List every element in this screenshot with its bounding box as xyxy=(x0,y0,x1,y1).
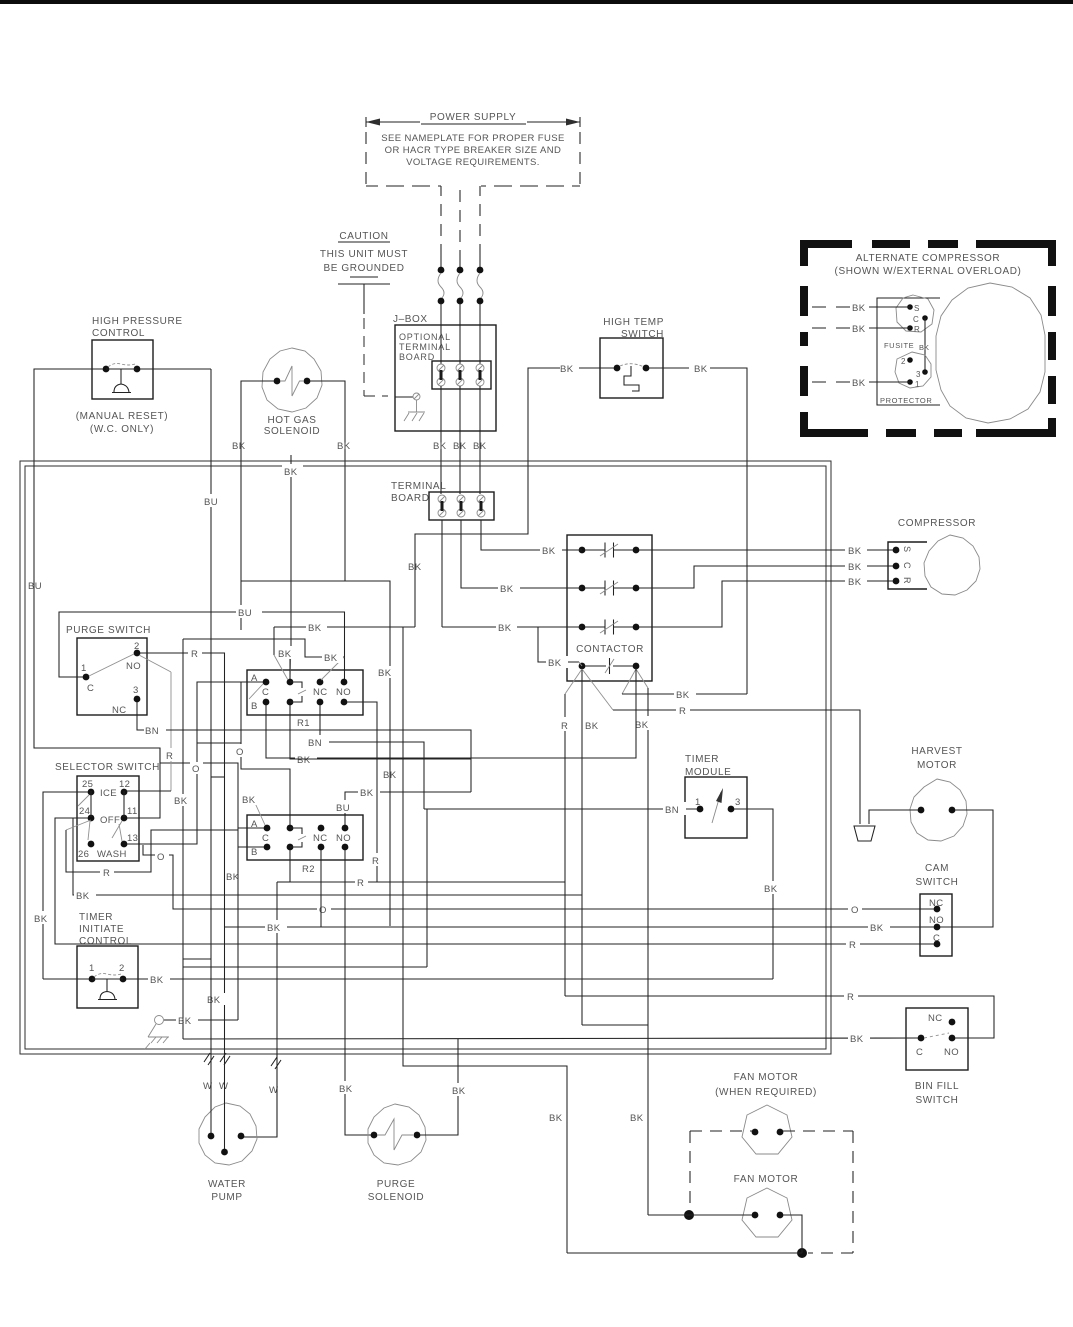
svg-text:11: 11 xyxy=(127,806,138,817)
wire high temp left to terminal board circuit xyxy=(578,367,614,369)
svg-text:BK: BK xyxy=(178,1016,192,1027)
inner terminal box xyxy=(877,298,940,405)
purge 2 thin R wire xyxy=(139,655,171,672)
svg-text:SOLENOID: SOLENOID xyxy=(368,1192,424,1203)
svg-text:R1: R1 xyxy=(297,718,310,729)
wire L1 dashed xyxy=(440,186,442,252)
svg-text:NO: NO xyxy=(126,661,141,672)
R1 coil top BK wire xyxy=(290,455,292,647)
svg-text:BK: BK xyxy=(360,788,374,799)
svg-text:BU: BU xyxy=(336,803,350,814)
svg-text:BU: BU xyxy=(204,497,218,508)
svg-text:C: C xyxy=(87,683,94,694)
svg-text:NO: NO xyxy=(336,687,351,698)
svg-text:3: 3 xyxy=(916,370,921,379)
R1 NC bottom BN wire xyxy=(320,705,424,809)
svg-text:CONTROL: CONTROL xyxy=(92,328,145,339)
svg-text:THIS UNIT MUST: THIS UNIT MUST xyxy=(320,249,408,260)
contactor xyxy=(567,535,652,681)
svg-text:BK: BK xyxy=(852,324,866,335)
svg-text:BK: BK xyxy=(548,658,562,669)
selector switch arms xyxy=(90,791,92,817)
svg-text:R: R xyxy=(166,751,173,762)
page border top bar xyxy=(0,0,1073,4)
wire HPC left to BU column xyxy=(34,369,264,828)
contact 3 xyxy=(579,624,586,631)
harvest left wire to terminal xyxy=(869,810,918,824)
svg-text:BK: BK xyxy=(297,755,311,766)
svg-text:TIMER: TIMER xyxy=(685,754,719,765)
contact 2 xyxy=(579,585,586,592)
svg-text:BOARD: BOARD xyxy=(399,352,435,362)
svg-text:2: 2 xyxy=(901,357,906,366)
fuse F3 xyxy=(479,252,481,268)
svg-text:R: R xyxy=(103,868,110,879)
hot gas wires join xyxy=(241,580,390,582)
pin3 wire down xyxy=(734,809,773,979)
timer module arrow head xyxy=(716,788,723,803)
svg-text:O: O xyxy=(192,764,200,775)
selector 25 wire xyxy=(43,792,88,979)
svg-text:R: R xyxy=(191,649,198,660)
purge C wire to BU xyxy=(59,612,345,682)
svg-text:BK: BK xyxy=(226,872,240,883)
svg-text:S: S xyxy=(902,546,912,552)
power supply box xyxy=(366,121,580,123)
svg-text:ICE: ICE xyxy=(100,788,117,799)
svg-text:BK: BK xyxy=(308,623,322,634)
TIC pin2 wire to timer module xyxy=(126,978,773,980)
svg-text:FAN MOTOR: FAN MOTOR xyxy=(734,1174,799,1185)
fuse F1 xyxy=(440,252,442,268)
R1 NO bottom R wire xyxy=(347,702,377,882)
R2 NC bottom wire xyxy=(320,850,322,927)
svg-text:BN: BN xyxy=(308,738,322,749)
selector 26 wire R xyxy=(66,820,91,830)
svg-text:BK: BK xyxy=(267,923,281,934)
wire BN branch down xyxy=(183,639,211,959)
water pump xyxy=(199,1103,257,1165)
svg-text:BK: BK xyxy=(852,378,866,389)
svg-text:3: 3 xyxy=(735,797,741,808)
relay R1 coil symbol xyxy=(290,682,302,702)
svg-text:PURGE: PURGE xyxy=(377,1179,416,1190)
selector 24 wire xyxy=(55,818,937,944)
wire hot gas right xyxy=(310,381,390,926)
svg-text:NC: NC xyxy=(928,1013,943,1024)
TIC pin1 wire xyxy=(43,978,89,980)
R1 NC top BK feed xyxy=(183,639,344,657)
svg-text:BK: BK xyxy=(498,623,512,634)
svg-text:BK: BK xyxy=(694,364,708,375)
svg-text:BK: BK xyxy=(433,441,447,452)
svg-text:J–BOX: J–BOX xyxy=(393,314,428,325)
svg-text:FAN MOTOR: FAN MOTOR xyxy=(734,1072,799,1083)
dashed BK wire to S xyxy=(812,306,910,308)
svg-text:VOLTAGE REQUIREMENTS.: VOLTAGE REQUIREMENTS. xyxy=(406,157,540,168)
svg-text:O: O xyxy=(851,905,859,916)
fusite xyxy=(896,295,934,332)
svg-text:BOARD: BOARD xyxy=(391,493,430,504)
svg-text:C: C xyxy=(916,1047,923,1058)
R2 coil bottom R wire xyxy=(290,850,565,882)
relay R2 xyxy=(247,815,363,860)
svg-text:TERMINAL: TERMINAL xyxy=(391,481,446,492)
contactor to compressor wires xyxy=(639,549,893,551)
protector xyxy=(895,352,931,388)
svg-text:BK: BK xyxy=(337,441,351,452)
power supply box bottom dashed edge xyxy=(366,185,580,187)
svg-text:BK: BK xyxy=(150,975,164,986)
svg-text:BK: BK xyxy=(278,649,292,660)
svg-text:TIMER: TIMER xyxy=(79,912,113,923)
svg-text:HOT GAS: HOT GAS xyxy=(267,415,316,426)
purge 3 BN wire xyxy=(137,702,471,792)
wire high temp right down to contactor coil xyxy=(649,367,689,369)
terminal board jumper bars xyxy=(441,501,483,511)
svg-text:BK: BK xyxy=(174,796,188,807)
svg-text:POWER SUPPLY: POWER SUPPLY xyxy=(430,112,516,123)
terminal board middle to contactor row2 xyxy=(461,520,582,588)
svg-text:BK: BK xyxy=(324,653,338,664)
svg-text:SEE NAMEPLATE FOR PROPER FUSE: SEE NAMEPLATE FOR PROPER FUSE xyxy=(381,133,565,144)
svg-text:3: 3 xyxy=(133,685,139,696)
svg-text:BK: BK xyxy=(852,303,866,314)
svg-text:R: R xyxy=(561,721,568,732)
svg-text:R: R xyxy=(914,325,920,334)
chassis ground xyxy=(338,277,390,314)
R1 coil top second feed from terminal board left xyxy=(274,626,582,628)
svg-text:W: W xyxy=(219,1081,228,1092)
svg-text:BU: BU xyxy=(28,581,42,592)
selector 12 wire xyxy=(127,790,171,792)
svg-text:BK: BK xyxy=(848,562,862,573)
svg-text:OPTIONAL: OPTIONAL xyxy=(399,332,451,342)
svg-text:HIGH PRESSURE: HIGH PRESSURE xyxy=(92,316,183,327)
relay R1 xyxy=(247,670,363,715)
svg-text:26: 26 xyxy=(78,849,89,860)
svg-text:C: C xyxy=(902,562,912,569)
purge solenoid xyxy=(368,1104,426,1165)
optional terminal board block xyxy=(432,361,491,389)
strain relief marks xyxy=(204,1053,281,1069)
svg-text:S: S xyxy=(914,304,919,313)
wire contactor coil right to R1 B xyxy=(567,669,636,758)
x=648 wire from contactor to fan2 xyxy=(648,1214,689,1216)
svg-text:PURGE SWITCH: PURGE SWITCH xyxy=(66,625,151,636)
svg-text:HARVEST: HARVEST xyxy=(911,746,962,757)
svg-text:BK: BK xyxy=(408,562,422,573)
svg-text:HIGH TEMP: HIGH TEMP xyxy=(603,317,664,328)
svg-text:A: A xyxy=(251,819,258,830)
svg-text:B: B xyxy=(251,701,258,712)
wire HPC right down BU xyxy=(140,368,211,370)
BK line y=927 xyxy=(225,926,934,928)
BU branch from HPC right xyxy=(210,369,212,1050)
wires inside J-box down to terminal board xyxy=(441,386,480,431)
main enclosure double border xyxy=(20,461,831,1054)
svg-text:BK: BK xyxy=(378,668,392,679)
relay R2 coil symbol xyxy=(290,828,302,847)
NO wire to R line xyxy=(565,996,994,1038)
svg-text:1: 1 xyxy=(81,663,87,674)
svg-text:O: O xyxy=(236,747,244,758)
timer initiate contact bar xyxy=(92,978,123,980)
svg-text:12: 12 xyxy=(119,779,130,790)
svg-text:INITIATE: INITIATE xyxy=(79,924,124,935)
purge switch arm xyxy=(89,654,134,676)
svg-text:BK: BK xyxy=(919,343,929,352)
svg-text:MOTOR: MOTOR xyxy=(917,760,957,771)
svg-text:BK: BK xyxy=(585,721,599,732)
svg-text:BK: BK xyxy=(242,795,256,806)
svg-text:(W.C. ONLY): (W.C. ONLY) xyxy=(90,424,154,435)
R2 B wire xyxy=(238,846,264,848)
wire L3 dashed xyxy=(479,186,481,252)
harvest right wire to cam NO xyxy=(940,810,993,927)
dashed BK wire to 1 xyxy=(812,381,910,383)
BK link C to 3 xyxy=(924,318,926,372)
terminal board right to contactor row1 xyxy=(481,520,582,550)
svg-text:C: C xyxy=(262,833,269,844)
svg-text:BK: BK xyxy=(630,1113,644,1124)
svg-text:1: 1 xyxy=(915,380,920,389)
svg-text:CAM: CAM xyxy=(925,863,949,874)
svg-text:BE GROUNDED: BE GROUNDED xyxy=(323,263,404,274)
wire terminal board left to BK line xyxy=(441,520,443,627)
svg-text:O: O xyxy=(157,852,165,863)
J-box ground xyxy=(395,396,413,398)
contact 1 xyxy=(579,547,586,554)
compressor blob xyxy=(936,283,1045,423)
svg-text:R: R xyxy=(902,577,912,584)
svg-text:COMPRESSOR: COMPRESSOR xyxy=(898,518,976,529)
svg-text:BK: BK xyxy=(383,770,397,781)
purge solenoid right wire xyxy=(420,1039,458,1135)
inner ground lug xyxy=(155,1016,164,1025)
x=403 wire to bottom xyxy=(403,627,567,1253)
svg-text:BK: BK xyxy=(34,914,48,925)
svg-text:BN: BN xyxy=(145,726,159,737)
wire L2 dashed xyxy=(459,190,461,256)
selector 11 wire xyxy=(127,748,160,818)
svg-text:BK: BK xyxy=(207,995,221,1006)
svg-text:24: 24 xyxy=(79,806,90,817)
bin fill switch xyxy=(906,1008,968,1070)
svg-text:BK: BK xyxy=(848,577,862,588)
optional terminal board jumper bars xyxy=(440,370,482,380)
svg-text:BK: BK xyxy=(339,1084,353,1095)
svg-text:BN: BN xyxy=(665,805,679,816)
svg-text:R: R xyxy=(847,992,854,1003)
svg-text:R: R xyxy=(679,706,686,717)
svg-text:NO: NO xyxy=(336,833,351,844)
svg-text:BK: BK xyxy=(453,441,467,452)
svg-text:BU: BU xyxy=(238,608,252,619)
svg-text:WATER: WATER xyxy=(208,1179,246,1190)
svg-text:SWITCH: SWITCH xyxy=(915,1095,958,1106)
svg-text:BK: BK xyxy=(284,467,298,478)
svg-text:B: B xyxy=(251,847,258,858)
dashed harness box xyxy=(690,1131,853,1253)
dashed BK wire to R xyxy=(812,327,910,329)
R1 A wire / O to R2 coil xyxy=(127,682,263,844)
selector 24 BK branch xyxy=(73,818,582,895)
svg-text:PUMP: PUMP xyxy=(211,1192,242,1203)
svg-text:SELECTOR SWITCH: SELECTOR SWITCH xyxy=(55,762,160,773)
svg-text:R: R xyxy=(357,878,364,889)
quick connect terminal xyxy=(854,826,875,841)
svg-text:O: O xyxy=(319,905,327,916)
svg-text:BK: BK xyxy=(542,546,556,557)
svg-text:WASH: WASH xyxy=(97,849,127,860)
svg-text:BIN FILL: BIN FILL xyxy=(915,1081,959,1092)
svg-text:CONTACTOR: CONTACTOR xyxy=(576,644,644,655)
svg-text:13: 13 xyxy=(127,833,138,844)
svg-text:1: 1 xyxy=(89,963,95,974)
svg-text:BK: BK xyxy=(549,1113,563,1124)
purge 2 R wire xyxy=(140,653,225,1050)
manual reset bell xyxy=(112,384,131,393)
R1 B wire to contactor coil xyxy=(266,705,636,758)
wire fan motor bottom rail xyxy=(567,1252,802,1254)
svg-text:25: 25 xyxy=(82,779,93,790)
fuse F2 xyxy=(459,256,461,268)
svg-text:SWITCH: SWITCH xyxy=(915,877,958,888)
contactor coil fanout xyxy=(581,669,583,1025)
svg-text:R: R xyxy=(849,940,856,951)
svg-text:R: R xyxy=(372,856,379,867)
svg-text:OR HACR TYPE BREAKER SIZE AND: OR HACR TYPE BREAKER SIZE AND xyxy=(385,145,562,156)
coil xyxy=(579,663,586,670)
alternate compressor enclosure (thick dashed) xyxy=(800,240,1056,437)
wire hot gas left xyxy=(241,381,274,630)
R1 coil bottom BK wire to R2 NO xyxy=(290,705,471,759)
svg-text:C: C xyxy=(913,315,919,324)
svg-text:BK: BK xyxy=(76,891,90,902)
svg-text:(WHEN REQUIRED): (WHEN REQUIRED) xyxy=(715,1087,817,1098)
svg-text:(SHOWN W/EXTERNAL OVERLOAD): (SHOWN W/EXTERNAL OVERLOAD) xyxy=(835,266,1022,277)
wire contactor coil right to fan motor BK xyxy=(636,669,648,688)
svg-text:FUSITE: FUSITE xyxy=(884,341,914,350)
BK wire into C xyxy=(183,1038,918,1039)
wire contactor coil right to high temp BK xyxy=(622,669,636,694)
svg-text:BK: BK xyxy=(870,923,884,934)
svg-text:OFF: OFF xyxy=(100,815,120,826)
svg-text:NO: NO xyxy=(944,1047,959,1058)
svg-text:SOLENOID: SOLENOID xyxy=(264,426,320,437)
svg-text:BK: BK xyxy=(473,441,487,452)
timer initiate reset bell xyxy=(98,992,117,1000)
svg-text:2: 2 xyxy=(119,963,125,974)
svg-text:NC: NC xyxy=(313,833,328,844)
svg-text:BK: BK xyxy=(635,720,649,731)
svg-text:BK: BK xyxy=(452,1086,466,1097)
hot gas solenoid xyxy=(262,348,322,412)
svg-text:NC: NC xyxy=(313,687,328,698)
svg-text:BK: BK xyxy=(500,584,514,595)
BN wire into pin1 xyxy=(424,808,697,810)
svg-text:BK: BK xyxy=(764,884,778,895)
svg-text:TERMINAL: TERMINAL xyxy=(399,342,451,352)
svg-text:NC: NC xyxy=(112,705,127,716)
selector 13 wire / O to cam xyxy=(143,845,934,909)
svg-text:(MANUAL RESET): (MANUAL RESET) xyxy=(76,411,168,422)
svg-text:BK: BK xyxy=(848,546,862,557)
svg-text:BK: BK xyxy=(676,690,690,701)
svg-text:ALTERNATE COMPRESSOR: ALTERNATE COMPRESSOR xyxy=(856,253,1000,264)
svg-text:BK: BK xyxy=(232,441,246,452)
svg-text:CAUTION: CAUTION xyxy=(339,231,388,242)
svg-text:BK: BK xyxy=(850,1034,864,1045)
svg-text:R2: R2 xyxy=(302,864,315,875)
fan motor 1 xyxy=(742,1105,792,1154)
R2 NO bottom wire to purge solenoid xyxy=(345,850,371,1135)
svg-text:PROTECTOR: PROTECTOR xyxy=(880,396,932,405)
svg-text:C: C xyxy=(262,687,269,698)
svg-text:BK: BK xyxy=(560,364,574,375)
